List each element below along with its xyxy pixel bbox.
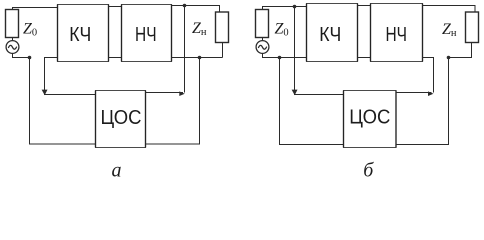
wire resistor to source [262,38,264,41]
svg-text:КЧ: КЧ [319,24,341,46]
svg-text:ЦОС: ЦОС [349,107,390,129]
wire node down to DSP bottom-right [396,58,449,145]
wire NCh output to load top [423,6,476,13]
resistor Zn (load) [216,12,229,43]
block NCh [371,4,423,62]
wire load bottom to series node [449,43,472,58]
wire load bottom [222,43,224,58]
svg-text:НЧ: НЧ [385,24,407,46]
wire bottom rail NCh to load [172,57,223,59]
wire NCh output to load top [172,6,220,13]
resistor Z0 (source impedance) [6,10,19,38]
arrow DSP output [179,91,185,96]
wire source bottom to KCh low input [263,54,307,58]
node source-low junction [278,56,282,60]
wire source top to KCh input [13,8,58,10]
svg-text:КЧ: КЧ [69,24,91,46]
wire resistor to source [12,38,14,41]
block KCh [58,5,109,62]
svg-text:НЧ: НЧ [135,24,157,46]
wire source top to KCh input [263,7,307,10]
block KCh [307,4,358,62]
node input sense on top wire [293,5,297,9]
AC source G2 [256,41,269,54]
wire KCh-NCh bottom [358,57,371,59]
AC source G1 [6,41,19,54]
node output top [183,4,187,8]
arrow DSP output [428,91,434,96]
block DSP (TsOS) [344,91,397,148]
svg-text:б: б [363,160,374,180]
resistor Zn (load) [466,12,479,43]
node rail junction [198,56,202,60]
block DSP (TsOS) [96,91,146,148]
svg-text:а: а [112,160,122,180]
node load return [447,56,451,60]
wire down to DSP bottom-left [280,58,344,145]
block NCh [122,5,172,62]
node source-low junction [28,56,32,60]
wire DSP output to node [146,92,184,94]
wire down to DSP bottom-left [30,58,96,145]
wire rail junction down [146,58,200,145]
svg-text:ЦОС: ЦОС [101,107,142,129]
wire KCh-NCh bottom [109,57,122,59]
wire KCh low input tap [45,58,96,95]
wire NCh low output tap [423,58,434,93]
wire KCh-NCh top [109,6,122,8]
wire source bottom [13,54,30,58]
arrow into DSP input [42,90,48,96]
resistor Z0 (source impedance) [256,10,269,38]
wire DSP output [396,92,432,94]
arrow into DSP input [292,90,298,96]
wire input sense down [295,7,344,95]
wire KCh-NCh top [358,5,371,7]
wire output sense down to DSP right [184,6,186,93]
